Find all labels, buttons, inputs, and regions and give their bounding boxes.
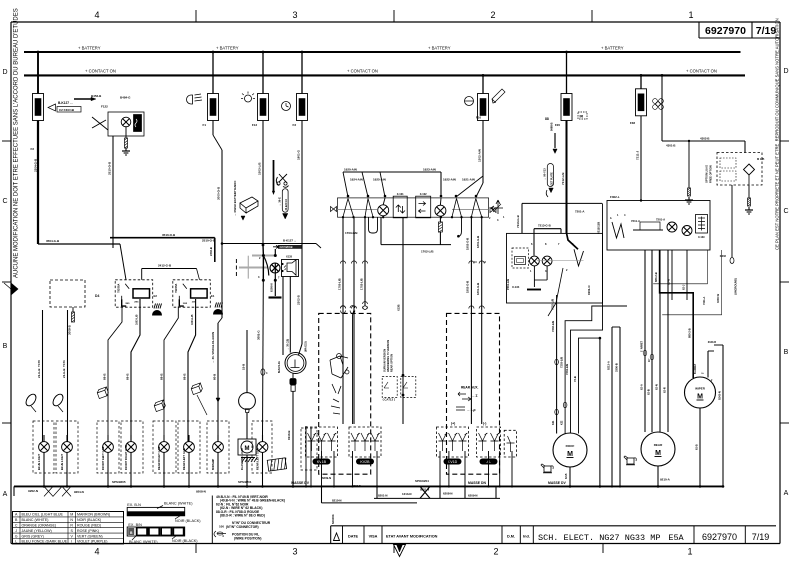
svg-text:D: D — [2, 69, 7, 76]
svg-text:GET PLATE: GET PLATE — [550, 172, 553, 186]
svg-text:JAUNE (YELLOW): JAUNE (YELLOW) — [22, 529, 52, 533]
svg-text:2: 2 — [490, 10, 495, 20]
svg-text:62-R: 62-R — [663, 387, 667, 393]
svg-text:(WIRE POSITION): (WIRE POSITION) — [234, 536, 261, 540]
svg-text:C: C — [15, 524, 18, 528]
svg-text:VERT (GREEN): VERT (GREEN) — [77, 534, 103, 538]
svg-text:F38: F38 — [630, 121, 636, 125]
svg-text:1: 1 — [688, 10, 693, 20]
svg-text:E1: E1 — [211, 294, 215, 298]
svg-text:60-B: 60-B — [213, 374, 217, 380]
svg-text:M 12B: M 12B — [757, 158, 765, 161]
svg-text:B-K127 ↔: B-K127 ↔ — [283, 239, 297, 243]
svg-text:6208-N: 6208-N — [443, 492, 452, 496]
svg-text:7201-A: 7201-A — [575, 210, 585, 214]
svg-text:OPTION LUAG: OPTION LUAG — [705, 165, 709, 183]
svg-text:↔ 30- VISUAL KLAXON: ↔ 30- VISUAL KLAXON — [211, 332, 215, 363]
svg-text:1603-L/B: 1603-L/B — [136, 314, 139, 325]
svg-text:BLEU CIEL (LIGHT BLUE: BLEU CIEL (LIGHT BLUE — [22, 513, 64, 517]
svg-text:6927970: 6927970 — [702, 532, 737, 542]
svg-text:880-2-B: 880-2-B — [654, 272, 658, 282]
svg-text:C: C — [783, 208, 788, 215]
svg-text:B484-G: B484-G — [120, 96, 131, 100]
svg-text:3306-W: 3306-W — [716, 293, 720, 303]
svg-text:M: M — [245, 446, 250, 452]
svg-text:X.102: X.102 — [420, 192, 427, 196]
svg-text:1923-A/N: 1923-A/N — [423, 168, 436, 172]
svg-text:X.101: X.101 — [397, 192, 404, 196]
svg-text:1604-L/B: 1604-L/B — [191, 314, 194, 325]
svg-text:P361-L/B: P361-L/B — [506, 279, 510, 290]
svg-text:69-B: 69-B — [160, 373, 164, 380]
svg-text:X13B: X13B — [397, 304, 401, 311]
svg-text:CE PLAN EST NOTRE PROPRIETE ET: CE PLAN EST NOTRE PROPRIETE ET NE PEUT E… — [775, 18, 780, 250]
svg-text:REAR AUX.: REAR AUX. — [461, 386, 479, 390]
svg-text:(-): (-) — [483, 422, 486, 426]
svg-text:IR: IR — [580, 114, 584, 118]
svg-text:(UNGROUND): (UNGROUND) — [734, 278, 738, 295]
svg-text:7204-L/B: 7204-L/B — [565, 364, 569, 375]
svg-text:1801-G: 1801-G — [297, 149, 301, 160]
svg-text:9988-B: 9988-B — [550, 122, 554, 131]
svg-text:4: 4 — [94, 10, 99, 20]
svg-text:M: M — [70, 513, 73, 517]
svg-text:1920-A/N: 1920-A/N — [344, 168, 357, 172]
svg-text:3504-G-B: 3504-G-B — [46, 239, 60, 243]
svg-text:100: 100 — [219, 525, 224, 529]
svg-text:69-B: 69-B — [126, 373, 130, 380]
svg-text:⟨ CAT13 ⟩: ⟨ CAT13 ⟩ — [383, 398, 395, 402]
svg-text:1801-G-B: 1801-G-B — [476, 236, 480, 248]
svg-text:KV2B: KV2B — [360, 460, 370, 464]
svg-text:ETAT AVANT MODIFICATION: ETAT AVANT MODIFICATION — [386, 535, 438, 539]
svg-text:8210-N: 8210-N — [332, 499, 341, 503]
svg-text:2304-G-B: 2304-G-B — [34, 158, 38, 172]
svg-text:21-G-B Y170: 21-G-B Y170 — [37, 360, 41, 378]
svg-text:7/19: 7/19 — [756, 25, 777, 37]
svg-text:(N°/N° CONNECTOR): (N°/N° CONNECTOR) — [226, 525, 259, 529]
svg-text:←Σ: ←Σ — [472, 394, 478, 398]
svg-text:F1: F1 — [202, 123, 206, 127]
svg-text:3001-G: 3001-G — [257, 330, 261, 340]
svg-text:T92/05A: T92/05A — [175, 283, 178, 292]
svg-text:7202-L/B: 7202-L/B — [551, 299, 555, 310]
svg-text:3340-B: 3340-B — [708, 341, 716, 344]
svg-text:B452-B: B452-B — [91, 94, 102, 98]
svg-text:+ CONTACT ON: + CONTACT ON — [347, 69, 378, 74]
svg-text:+ BATTERY: + BATTERY — [78, 45, 101, 50]
svg-text:7202-L/B: 7202-L/B — [551, 321, 555, 332]
svg-text:F2: F2 — [30, 147, 34, 151]
svg-text:Ind.: Ind. — [523, 535, 530, 539]
svg-text:M: M — [697, 394, 703, 401]
svg-text:(MA E15): (MA E15) — [305, 341, 308, 352]
svg-text:1924-A/N: 1924-A/N — [350, 177, 363, 181]
svg-text:MASSE DV: MASSE DV — [291, 481, 309, 485]
svg-text:2412-G-B: 2412-G-B — [158, 263, 172, 267]
svg-text:1922-A/N: 1922-A/N — [443, 177, 456, 181]
svg-text:REAR RIGHT GAB: REAR RIGHT GAB — [157, 447, 161, 471]
svg-text:880-2-B: 880-2-B — [688, 328, 692, 338]
svg-text:M: M — [567, 451, 573, 458]
svg-text:D4: D4 — [95, 294, 99, 298]
svg-text:G: G — [15, 534, 18, 538]
svg-text:BLUE LIGHT: BLUE LIGHT — [60, 454, 64, 470]
svg-text:9201-N: 9201-N — [587, 286, 591, 295]
svg-text:EX. B-N: EX. B-N — [127, 503, 141, 507]
svg-text:62-N: 62-N — [655, 384, 659, 390]
svg-text:2302-B: 2302-B — [297, 294, 301, 305]
svg-text:9208-N: 9208-N — [196, 490, 206, 494]
svg-text:2: 2 — [493, 547, 498, 557]
svg-text:BLUE LIGHT: BLUE LIGHT — [37, 454, 41, 470]
svg-text:2510-O-B: 2510-O-B — [108, 161, 112, 175]
svg-text:NOIR (BLACK): NOIR (BLACK) — [175, 519, 201, 523]
svg-text:9201-N: 9201-N — [420, 488, 429, 492]
svg-text:3510-O-B: 3510-O-B — [162, 233, 176, 237]
svg-text:B-K127 ↔: B-K127 ↔ — [58, 101, 73, 105]
svg-text:M: M — [655, 450, 661, 457]
svg-text:SCH. ELECT. NG27 NG33 MP: SCH. ELECT. NG27 NG33 MP — [538, 533, 660, 543]
svg-text:1° ARRET: 1° ARRET — [641, 340, 644, 352]
svg-text:L: L — [15, 540, 17, 544]
svg-text:3008-B: 3008-B — [68, 324, 72, 335]
svg-text:9213-A: 9213-A — [607, 361, 611, 370]
svg-text:I: I — [71, 540, 72, 544]
svg-text:F3: F3 — [292, 123, 296, 127]
svg-text:6927970: 6927970 — [705, 25, 746, 37]
svg-text:2510-O-B: 2510-O-B — [202, 239, 216, 243]
svg-text:ROUGE (RED): ROUGE (RED) — [77, 524, 101, 528]
svg-text:(88.O-R : WIRE N° 88.O RED): (88.O-R : WIRE N° 88.O RED) — [220, 514, 265, 518]
svg-text:3: 3 — [292, 10, 297, 20]
svg-text:1302-A/N: 1302-A/N — [478, 149, 482, 162]
svg-text:1921-A/N: 1921-A/N — [462, 177, 475, 181]
svg-text:A: A — [784, 490, 789, 497]
svg-text:7203-L/B: 7203-L/B — [560, 357, 564, 368]
svg-text:F302-L: F302-L — [610, 195, 620, 199]
svg-text:SPS/9201: SPS/9201 — [238, 480, 252, 484]
svg-text:1925-A/N: 1925-A/N — [373, 177, 386, 181]
svg-text:D: D — [783, 68, 788, 75]
svg-text:1703-L/B: 1703-L/B — [345, 231, 358, 235]
svg-text:3: 3 — [292, 547, 297, 557]
svg-text:A: A — [3, 491, 8, 498]
svg-text:VISA: VISA — [369, 535, 378, 539]
svg-text:T92/05A: T92/05A — [117, 283, 120, 292]
svg-text:SURVAN VERSION: SURVAN VERSION — [383, 349, 387, 372]
svg-text:6208-N: 6208-N — [270, 283, 274, 292]
svg-text:FREE OPTION: FREE OPTION — [709, 165, 713, 183]
svg-text:K22: K22 — [561, 420, 564, 425]
svg-text:SPO/9204: SPO/9204 — [415, 479, 429, 483]
svg-text:72-B: 72-B — [573, 376, 577, 382]
svg-text:7214-G-B: 7214-G-B — [516, 215, 520, 228]
svg-text:BLANC (WHITE): BLANC (WHITE) — [164, 502, 193, 506]
svg-text:K21: K21 — [552, 420, 555, 425]
svg-text:VIOLET (PURPLE): VIOLET (PURPLE) — [77, 540, 108, 544]
svg-text:J: J — [15, 529, 17, 533]
svg-text:←1.ρ: ←1.ρ — [467, 408, 476, 412]
svg-text:N: N — [70, 518, 73, 522]
svg-text:REAR OPTION: REAR OPTION — [390, 354, 394, 372]
svg-text:WEDDERING 71 VERSION: WEDDERING 71 VERSION — [386, 340, 390, 372]
svg-text:NOIR (BLACK): NOIR (BLACK) — [172, 539, 198, 543]
svg-text:9210-B: 9210-B — [287, 431, 291, 440]
svg-text:1802-G-B: 1802-G-B — [466, 238, 470, 250]
svg-text:7211-A: 7211-A — [631, 219, 640, 223]
svg-text:K302: K302 — [720, 254, 727, 258]
svg-text:7201-A: 7201-A — [656, 218, 665, 222]
svg-text:62-B: 62-B — [565, 473, 568, 479]
svg-text:MAG'LIG: MAG'LIG — [277, 361, 281, 373]
svg-text:GRIS (GREY): GRIS (GREY) — [22, 534, 44, 538]
svg-text:E2: E2 — [154, 294, 158, 298]
svg-text:6209-N: 6209-N — [468, 494, 477, 498]
svg-text:4302-B: 4302-B — [700, 137, 709, 141]
svg-text:+ CONTACT ON: + CONTACT ON — [85, 69, 116, 74]
svg-text:MODIF.: MODIF. — [331, 514, 335, 524]
svg-text:2302-B: 2302-B — [209, 247, 213, 256]
svg-text:36-E23 GO: 36-E23 GO — [286, 199, 288, 211]
svg-text:9202-N: 9202-N — [28, 489, 38, 493]
svg-text:69-B: 69-B — [183, 373, 187, 380]
svg-text:1802-G-B: 1802-G-B — [466, 281, 470, 293]
svg-text:9201-N: 9201-N — [352, 484, 361, 488]
svg-text:B.ARRET: B.ARRET — [694, 363, 697, 374]
svg-text:FRONT LEFT GAB: FRONT LEFT GAB — [101, 447, 105, 470]
svg-text:↔ 30 (15): ↔ 30 (15) — [286, 339, 289, 350]
svg-text:F20: F20 — [555, 123, 561, 127]
svg-text:WIPER: WIPER — [695, 387, 706, 391]
svg-text:+ BATTERY: + BATTERY — [428, 45, 451, 50]
svg-text:FLASHING LIGHT: FLASHING LIGHT — [240, 447, 244, 470]
svg-text:9204-N: 9204-N — [74, 490, 84, 494]
svg-text:B: B — [784, 349, 789, 356]
svg-text:↔ 36-E: ↔ 36-E — [278, 197, 282, 206]
svg-text:MASSE DN: MASSE DN — [468, 481, 486, 485]
svg-text:FRONT RIGHT GAB: FRONT RIGHT GAB — [124, 445, 128, 470]
svg-text:+ CONTACT ON: + CONTACT ON — [686, 69, 717, 74]
svg-text:62-J: 62-J — [682, 284, 686, 290]
svg-text:6209-N: 6209-N — [322, 476, 331, 480]
svg-text:69-B: 69-B — [103, 373, 107, 380]
svg-text:C: C — [2, 198, 7, 205]
svg-text:MASSE DV: MASSE DV — [548, 481, 566, 485]
svg-text:BLANC (WHITE): BLANC (WHITE) — [22, 518, 49, 522]
svg-text:21-G-B Y171: 21-G-B Y171 — [62, 360, 66, 378]
svg-text:F122: F122 — [101, 105, 108, 109]
svg-text:+ BATTERY: + BATTERY — [601, 45, 624, 50]
svg-text:↔ DWG6 BATTERY RADIO: ↔ DWG6 BATTERY RADIO — [233, 180, 237, 216]
svg-text:D.M.: D.M. — [507, 535, 515, 539]
svg-text:NOIR (BLACK): NOIR (BLACK) — [77, 518, 101, 522]
svg-text:BLANC (WHITE): BLANC (WHITE) — [129, 540, 158, 544]
svg-text:3306-B: 3306-B — [615, 363, 619, 372]
svg-text:1: 1 — [687, 547, 692, 557]
svg-text:9210-A: 9210-A — [660, 478, 671, 482]
svg-text:1°: 1° — [703, 372, 705, 374]
svg-text:F16: F16 — [476, 116, 482, 120]
svg-text:62-A: 62-A — [640, 384, 644, 390]
svg-text:X.139: X.139 — [698, 236, 705, 239]
svg-text:1703-L/B: 1703-L/B — [338, 278, 342, 290]
svg-text:3000-O-B: 3000-O-B — [217, 186, 221, 200]
svg-text:1702-L/B: 1702-L/B — [421, 250, 434, 254]
svg-text:R: R — [70, 524, 73, 528]
svg-text:AUCUNE MODIFICATION NE DOIT ET: AUCUNE MODIFICATION NE DOIT ETRE EFFECTU… — [14, 8, 20, 278]
svg-text:SPS/9205: SPS/9205 — [112, 480, 126, 484]
svg-text:BLEU FONCE (DARK BLUE: BLEU FONCE (DARK BLUE — [22, 540, 68, 544]
svg-text:4: 4 — [94, 547, 99, 557]
svg-text:ROSE (PINK): ROSE (PINK) — [77, 529, 99, 533]
svg-text:1503-L/B: 1503-L/B — [258, 162, 262, 175]
svg-text:8201-N: 8201-N — [378, 494, 387, 498]
svg-text:B: B — [3, 343, 8, 350]
svg-text:X.134: X.134 — [512, 285, 520, 289]
svg-text:1213-N: 1213-N — [402, 492, 411, 496]
svg-text:ORANGE (ORANGE): ORANGE (ORANGE) — [22, 524, 57, 528]
svg-text:7213-G-B: 7213-G-B — [538, 224, 551, 228]
svg-text:9211/11B: 9211/11B — [597, 222, 601, 234]
svg-text:7211-J: 7211-J — [636, 150, 640, 160]
svg-text:62-B: 62-B — [695, 444, 699, 450]
svg-text:REAR LEFT GAB: REAR LEFT GAB — [182, 448, 186, 470]
svg-text:62-B: 62-B — [647, 389, 651, 395]
svg-text:REAR: REAR — [654, 443, 663, 447]
svg-text:+ BATTERY: + BATTERY — [216, 45, 239, 50]
svg-text:15-B: 15-B — [242, 364, 246, 370]
svg-text:↔ 90-Y13: ↔ 90-Y13 — [543, 168, 547, 180]
svg-text:9243-N: 9243-N — [718, 391, 722, 400]
svg-text:ROOF: ROOF — [566, 444, 575, 448]
svg-text:MARRON (BROWN): MARRON (BROWN) — [77, 513, 110, 517]
svg-text:DATE: DATE — [348, 535, 359, 539]
svg-text:C2 F3/C1B: C2 F3/C1B — [59, 108, 75, 112]
svg-text:7212-L/B: 7212-L/B — [561, 172, 565, 185]
svg-text:E5A: E5A — [668, 533, 684, 543]
svg-text:88: 88 — [545, 117, 549, 121]
svg-text:7211-A: 7211-A — [702, 297, 706, 305]
svg-text:1801-G-B: 1801-G-B — [476, 283, 480, 295]
svg-text:F13: F13 — [252, 123, 258, 127]
svg-text:(+): (+) — [451, 422, 455, 426]
svg-text:X135: X135 — [286, 255, 293, 259]
svg-text:4301-B: 4301-B — [666, 144, 675, 148]
svg-text:11°: 11° — [648, 358, 651, 362]
svg-text:1702-L/B: 1702-L/B — [360, 278, 364, 290]
svg-text:C2 F3/C1B: C2 F3/C1B — [280, 245, 293, 249]
svg-text:MIDSHIP: MIDSHIP — [211, 459, 215, 470]
svg-text:7/19: 7/19 — [752, 532, 770, 542]
